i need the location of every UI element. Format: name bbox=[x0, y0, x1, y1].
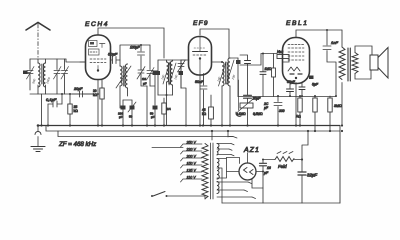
wire: rectifier output bbox=[256, 171, 263, 173]
svg-text:50µF: 50µF bbox=[287, 80, 296, 84]
volume potentiometer 0,5M bbox=[236, 99, 263, 127]
label: input coil values bbox=[31, 76, 51, 85]
svg-text:100: 100 bbox=[216, 76, 222, 82]
svg-text:50: 50 bbox=[129, 115, 133, 119]
svg-text:1M: 1M bbox=[142, 77, 147, 81]
capacitor 20uF (cathode) bbox=[72, 87, 99, 97]
wire: osc cathode drop bbox=[146, 86, 148, 126]
wire: ECH4 pins bbox=[80, 28, 164, 126]
tube EBL1 internal electrodes bbox=[288, 45, 304, 80]
tube ECH4 envelope bbox=[85, 21, 111, 80]
antenna bbox=[26, 23, 50, 60]
svg-text:0,1MΩ: 0,1MΩ bbox=[236, 112, 246, 116]
heater arrow from bus 3 bbox=[229, 137, 237, 139]
svg-text:ΑΩ: ΑΩ bbox=[296, 115, 301, 119]
resistor (AF grid leak) bbox=[272, 54, 276, 97]
svg-text:µF: µF bbox=[143, 82, 147, 86]
svg-text:100: 100 bbox=[173, 74, 179, 80]
resistor (osc grid leak) bbox=[93, 80, 104, 127]
svg-text:1nF: 1nF bbox=[331, 40, 338, 45]
capacitor 16uF bbox=[260, 159, 276, 204]
wire: mains lead bbox=[152, 147, 183, 149]
svg-text:kΩ: kΩ bbox=[202, 112, 207, 116]
wire: detector to grid line bbox=[240, 54, 277, 66]
svg-text:1/4: 1/4 bbox=[167, 107, 172, 111]
svg-text:150 V: 150 V bbox=[187, 162, 197, 166]
svg-text:125 V: 125 V bbox=[187, 169, 197, 173]
speaker bbox=[370, 48, 388, 79]
wire: bottom return rail bbox=[222, 202, 340, 204]
resistor 150 (cathode bias) bbox=[296, 95, 302, 126]
svg-text:200 V: 200 V bbox=[186, 155, 197, 159]
svg-text:EF9: EF9 bbox=[193, 20, 209, 27]
svg-text:µF: µF bbox=[264, 106, 269, 110]
capacitor 50pF to bus bbox=[150, 106, 158, 126]
capacitor (detector coupling) bbox=[240, 55, 251, 95]
trimmer capacitor C3 bbox=[61, 59, 69, 94]
tube EBL1 envelope bbox=[283, 20, 310, 84]
IF transformer 2 bbox=[219, 58, 241, 127]
output transformer primary bbox=[339, 30, 345, 126]
mains voltage taps bbox=[181, 141, 203, 183]
antenna coil L1 bbox=[38, 59, 40, 94]
svg-text:20µF: 20µF bbox=[252, 97, 262, 101]
resistor No2 (grid stopper) bbox=[277, 50, 289, 62]
output transformer core bbox=[348, 48, 350, 81]
svg-text:0,1µF: 0,1µF bbox=[46, 97, 57, 102]
capacitor 20uF (AF coupling) bbox=[244, 95, 262, 103]
svg-text:250 V: 250 V bbox=[186, 141, 197, 145]
wire: oscillator top rail bbox=[120, 45, 150, 60]
capacitor 0,1uF bbox=[46, 93, 63, 126]
filter choke (field coil) Feld bbox=[275, 152, 294, 170]
trimmer blob (osc tracking) bbox=[128, 100, 136, 126]
svg-text:kΩ: kΩ bbox=[93, 93, 98, 97]
capacitor blob (tracking) bbox=[150, 71, 158, 106]
mains switch bbox=[151, 192, 205, 200]
resistor 3M (tone) bbox=[328, 96, 342, 131]
svg-text:3MΩ: 3MΩ bbox=[334, 104, 342, 108]
resistor 1M (diode load) bbox=[260, 53, 272, 97]
wire: grid lead to ECH4 bbox=[66, 59, 85, 62]
junction dots on buses bbox=[47, 124, 343, 132]
capacitor 1nF (tone) bbox=[309, 29, 338, 97]
power transformer secondary: rectifier filament winding bbox=[217, 144, 234, 156]
coil L2 (secondary) bbox=[42, 59, 46, 94]
capacitor 32uF bbox=[294, 131, 317, 203]
svg-text:5µF: 5µF bbox=[312, 83, 319, 87]
oscillator coil pair bbox=[116, 64, 131, 108]
resistor (AVC) bbox=[162, 98, 171, 126]
wire: input circuit top rail bbox=[30, 58, 66, 60]
svg-text:pF: pF bbox=[151, 115, 155, 119]
svg-text:220 V: 220 V bbox=[186, 148, 197, 152]
input tuned circuit: antenna coupling capacitor bbox=[23, 71, 30, 75]
wire: input circuit bottom rail bbox=[30, 93, 98, 95]
resistor 45k (screen) bbox=[202, 95, 213, 126]
wire: input return to bus bbox=[41, 94, 43, 126]
tube EF9 internal electrodes bbox=[193, 37, 208, 75]
svg-text:50µF: 50µF bbox=[108, 52, 118, 57]
connector hook (pickup jack) bbox=[236, 80, 241, 116]
coupling capacitor 50uF label bbox=[108, 52, 120, 67]
resistor 25k bbox=[68, 93, 78, 126]
svg-text:100: 100 bbox=[231, 74, 237, 80]
label: IF1 coil values bbox=[160, 74, 179, 80]
power transformer primary winding bbox=[202, 144, 208, 199]
svg-text:µF: µF bbox=[264, 171, 269, 175]
capacitor 20uF (cathode EBL1) bbox=[263, 95, 285, 126]
power transformer core bbox=[211, 143, 214, 199]
capacitor 50nF bbox=[195, 74, 207, 126]
output transformer secondary bbox=[352, 46, 372, 79]
svg-text:300: 300 bbox=[279, 109, 285, 113]
rectifier tube AZ1 bbox=[239, 147, 260, 180]
wire: bus stubs to transformer bbox=[212, 131, 228, 140]
svg-text:100: 100 bbox=[160, 74, 166, 80]
svg-text:32µF: 32µF bbox=[307, 173, 317, 178]
wire: right-hand B+ riser bbox=[339, 126, 341, 204]
svg-text:kΩ: kΩ bbox=[74, 109, 79, 113]
capacitor 100pF to bus bbox=[118, 100, 132, 126]
svg-text:ECH4: ECH4 bbox=[85, 21, 109, 28]
svg-text:pF: pF bbox=[119, 115, 123, 119]
svg-text:50nF: 50nF bbox=[195, 80, 204, 84]
power transformer secondary: HT winding bbox=[217, 158, 240, 204]
svg-text:100pF: 100pF bbox=[130, 46, 141, 50]
trimmer capacitor (osc) bbox=[137, 67, 147, 87]
wire: bus 2 bbox=[46, 126, 340, 132]
wire: EF9 pins bbox=[200, 29, 229, 126]
wire: rectifier lower loop bbox=[252, 179, 263, 188]
grid trimmer of EF9 bbox=[178, 60, 190, 127]
svg-text:500: 500 bbox=[31, 78, 37, 84]
trimmer capacitor (padding) bbox=[147, 45, 155, 86]
wire: EBL1 pins bbox=[287, 30, 343, 126]
svg-text:20µF: 20µF bbox=[73, 87, 83, 91]
tube ECH4 internal electrodes bbox=[89, 41, 107, 72]
wire: AF/feedback rail bbox=[238, 96, 336, 98]
wire: chassis bus (main) bbox=[38, 125, 340, 127]
svg-text:ZF = 468 kHz: ZF = 468 kHz bbox=[58, 141, 97, 148]
svg-text:EBL1: EBL1 bbox=[286, 20, 309, 27]
svg-text:0,5MΩ: 0,5MΩ bbox=[253, 112, 263, 116]
svg-text:110 V: 110 V bbox=[187, 176, 197, 180]
trimmer capacitor (antenna) bbox=[27, 59, 35, 90]
svg-text:2000: 2000 bbox=[45, 76, 51, 85]
svg-text:Feld: Feld bbox=[278, 164, 287, 169]
resistor (screen) bbox=[313, 95, 317, 131]
svg-text:AZ1: AZ1 bbox=[243, 147, 260, 154]
tube EF9 envelope bbox=[189, 20, 212, 75]
IF transformer 1 bbox=[156, 60, 187, 126]
svg-text:1MΩ: 1MΩ bbox=[265, 67, 272, 71]
power transformer secondary: heater winding bbox=[217, 182, 256, 199]
wire: bus 3 (heater rail) bbox=[58, 131, 233, 137]
trimmer capacitor C2 bbox=[54, 59, 62, 94]
label: IF2 coil values bbox=[216, 74, 236, 82]
ground (antenna earth) bbox=[31, 124, 45, 151]
svg-text:16: 16 bbox=[267, 166, 271, 170]
capacitor 100pF (osc padder) bbox=[130, 44, 145, 70]
